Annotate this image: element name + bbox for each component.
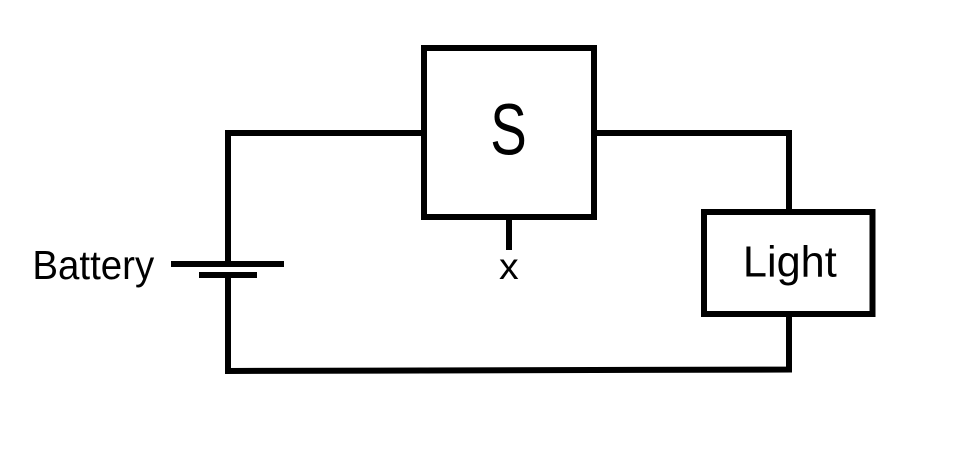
wire battery-to-S (left top) (228, 133, 421, 262)
svg-text:S: S (490, 89, 527, 170)
wire battery-to-light (bottom) (228, 277, 789, 371)
terminal stub x below S (506, 217, 512, 250)
battery plate short (negative) (199, 272, 257, 278)
svg-text:Battery: Battery (32, 243, 154, 288)
light box (704, 212, 873, 314)
svg-text:Light: Light (743, 237, 837, 286)
battery B1 (171, 264, 284, 275)
switch box S1 (424, 48, 594, 217)
svg-text:x: x (499, 246, 519, 288)
wire S-to-light (right top) (597, 133, 789, 210)
battery plate long (positive) (171, 261, 284, 267)
